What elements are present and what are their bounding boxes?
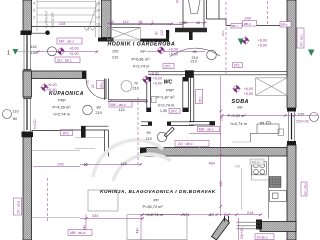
- dim soba horizontal: [222, 114, 318, 116]
- windows thin lines: [23, 33, 294, 229]
- dash axis top right: [267, 1, 269, 25]
- kitchen counter front edge: [268, 156, 270, 219]
- wall bathroom top hatched: [23, 71, 86, 79]
- wall bathroom east double: [105, 79, 109, 100]
- svg-text:WC: WC: [164, 80, 173, 86]
- dim stair window: [36, 51, 98, 53]
- window left upper: [24, 33, 31, 71]
- sink basin: [269, 191, 286, 202]
- wall left window2 sill cap: [22, 132, 34, 138]
- wall bath-wc partition: [108, 100, 146, 101]
- stair numbers left: [33, 2, 35, 20]
- wall cap wc left top: [146, 77, 151, 81]
- svg-text:2P.c: 2P.c: [171, 110, 178, 114]
- svg-text:464: 464: [209, 162, 215, 166]
- svg-text:MK : ab.c: MK : ab.c: [59, 40, 74, 44]
- svg-text:+6,00: +6,00: [169, 47, 179, 51]
- svg-text:P=4,29 m²: P=4,29 m²: [53, 104, 72, 109]
- wire soba floor line: [232, 141, 250, 143]
- dash axis kitchen: [47, 178, 49, 222]
- door tag circles: [3, 47, 319, 142]
- wall wc right channel: [183, 77, 189, 112]
- svg-text:440: 440: [136, 228, 140, 234]
- wall hodnik top double: [111, 24, 183, 27]
- level marker top right: [241, 36, 249, 44]
- door entry leaf: [189, 0, 201, 14]
- svg-text:3: 3: [33, 9, 35, 13]
- wall right-top hatched: [287, 0, 296, 108]
- wall top right corridor: [226, 19, 287, 26]
- sink unit dark: [269, 177, 281, 188]
- svg-text:80: 80: [13, 117, 17, 121]
- wall diagonal terrace hatched: [212, 218, 230, 240]
- svg-text:+5,90: +5,90: [169, 52, 179, 56]
- node black caps: [45, 30, 215, 138]
- doors: [86, 0, 220, 155]
- svg-text:2V : ab.c: 2V : ab.c: [300, 34, 304, 47]
- svg-text:50: 50: [224, 213, 228, 217]
- svg-text:210: 210: [96, 111, 102, 115]
- wall left-bottom hatched: [23, 137, 32, 240]
- svg-text:PP: PP: [154, 197, 160, 202]
- svg-text:MK : ab.c: MK : ab.c: [111, 103, 126, 107]
- svg-text:P=9,00 m²: P=9,00 m²: [228, 113, 247, 118]
- svg-text:214: 214: [247, 211, 253, 215]
- svg-text:240: 240: [245, 17, 251, 21]
- level marker kupaonica: [40, 83, 48, 91]
- svg-text:1W: 1W: [235, 165, 241, 169]
- svg-text:16: 16: [96, 2, 100, 6]
- wall cap bath top end: [82, 71, 86, 78]
- svg-text:115: 115: [121, 162, 127, 166]
- dash axis corridor: [137, 97, 139, 165]
- wire shelf line b: [75, 148, 95, 150]
- dim vertical soba-kitchen: [220, 76, 222, 216]
- wall right window cap top: [287, 108, 296, 112]
- wall cap entry stub: [189, 32, 193, 40]
- wall mid cap left: [140, 148, 146, 157]
- svg-text:2P.c: 2P.c: [63, 132, 70, 136]
- watermark arcs: [93, 140, 171, 181]
- svg-text:2P.c: 2P.c: [199, 96, 203, 102]
- soba side table: [278, 129, 284, 136]
- svg-text:10: 10: [138, 20, 142, 24]
- svg-text:90: 90: [147, 131, 151, 135]
- svg-text:+5,90: +5,90: [258, 43, 268, 47]
- svg-text:h=2,74 m: h=2,74 m: [147, 212, 163, 217]
- svg-text:1,39: 1,39: [160, 109, 167, 113]
- stairs: [37, 0, 99, 37]
- svg-text:2: 2: [33, 16, 35, 20]
- dresser soba: [257, 124, 279, 133]
- lamp circle hodnik corridor: [121, 81, 132, 92]
- svg-text:140: 140: [31, 51, 37, 55]
- wire shelf line a: [75, 137, 105, 139]
- svg-text:440: 440: [83, 225, 87, 231]
- dim ticks: [37, 22, 296, 220]
- svg-text:171: 171: [183, 213, 189, 217]
- svg-text:2P.c: 2P.c: [100, 82, 104, 88]
- wall left-top hatched: [23, 0, 32, 33]
- svg-text:MK : ab.c: MK : ab.c: [199, 128, 214, 132]
- dim soba south: [189, 132, 221, 134]
- wall wc south left piece: [141, 122, 152, 126]
- door bathroom leaf: [105, 79, 107, 99]
- svg-text:140: 140: [219, 115, 223, 121]
- level marker hodnik: [157, 46, 165, 54]
- dim texts black: [13, 21, 304, 217]
- svg-text:+6,00: +6,00: [258, 39, 268, 43]
- wall kitchen tee vertical: [105, 130, 109, 157]
- svg-text:100: 100: [112, 50, 118, 54]
- svg-text:100: 100: [298, 113, 304, 117]
- svg-text:70: 70: [86, 80, 90, 84]
- window right soba: [288, 112, 294, 142]
- svg-text:PKP: PKP: [58, 98, 66, 103]
- window terrace door: [237, 222, 261, 229]
- wardrobe hodnik with X: [108, 28, 141, 40]
- svg-text:Pa/VANJ.ST: Pa/VANJ.ST: [45, 10, 49, 28]
- section marker top: [238, 39, 244, 46]
- level marker wc: [142, 75, 150, 83]
- svg-text:242: 242: [58, 162, 64, 166]
- svg-text:210: 210: [191, 60, 197, 64]
- svg-text:h=2,74 m: h=2,74 m: [231, 121, 247, 126]
- svg-text:10: 10: [196, 21, 200, 25]
- window left lower: [24, 97, 31, 132]
- room titles: [49, 42, 249, 195]
- svg-text:14: 14: [96, 16, 100, 20]
- wall cap garderoba bar: [140, 39, 169, 42]
- wall stairwell cap: [98, 38, 114, 42]
- wall stair landing line: [32, 26, 102, 28]
- dim entry door: [179, 22, 207, 24]
- svg-text:h=120: h=120: [33, 119, 37, 129]
- wall cap wc right bottom: [183, 108, 189, 112]
- svg-text:h=2,74 m: h=2,74 m: [54, 111, 70, 116]
- wall cap garderoba stub: [166, 30, 169, 39]
- stair arrowheads: [84, 27, 96, 31]
- svg-text:+6,00: +6,00: [153, 77, 163, 81]
- svg-text:=+6,00: =+6,00: [148, 72, 159, 76]
- svg-text:PKP: PKP: [166, 87, 174, 92]
- svg-text:MB : ab.a: MB : ab.a: [70, 231, 85, 235]
- svg-text:1: 1: [7, 51, 10, 57]
- stair walk line: [88, 4, 97, 31]
- wall cap kitchen tee end: [81, 126, 86, 137]
- svg-text:240+20: 240+20: [240, 227, 244, 239]
- wall cap wc door right: [167, 122, 171, 126]
- dim kitchen left: [80, 217, 143, 219]
- dim hodnik top: [107, 23, 172, 25]
- svg-text:153: 153: [219, 181, 223, 187]
- svg-text:KUHINJA, BLAGOVAONICA I DN.BOR: KUHINJA, BLAGOVAONICA I DN.BORAVAK: [100, 189, 216, 195]
- wall cap wc door left: [148, 122, 152, 126]
- dim dashed lines: [48, 1, 268, 222]
- wire kitchen counter line: [241, 168, 243, 210]
- wall mid horizontal hatched: [146, 148, 287, 157]
- svg-text:90: 90: [176, 0, 180, 3]
- svg-text:210: 210: [146, 137, 152, 141]
- svg-text:+5,90: +5,90: [69, 52, 79, 56]
- svg-text:220+20: 220+20: [296, 119, 309, 123]
- wire kupaonica lower line: [32, 150, 81, 152]
- svg-text:SP.c: SP.c: [281, 23, 288, 27]
- section line left: [16, 51, 36, 53]
- wall entry jambs: [183, 0, 204, 28]
- svg-text:PP: PP: [238, 105, 244, 110]
- wall entry threshold bar: [175, 28, 207, 33]
- svg-text:P=30,72 m²: P=30,72 m²: [143, 204, 164, 209]
- svg-text:SU.a: SU.a: [252, 161, 260, 165]
- svg-text:P=6,81 m²: P=6,81 m²: [132, 56, 151, 61]
- svg-text:20: 20: [91, 84, 95, 88]
- dim kupaonica window: [33, 166, 80, 168]
- node stair dot: [45, 30, 50, 35]
- svg-text:+6,00: +6,00: [69, 47, 79, 51]
- wire thin walls black: [32, 0, 288, 157]
- svg-text:2V : ab.c: 2V : ab.c: [303, 183, 307, 195]
- wall soba west double: [191, 77, 194, 122]
- svg-text:h=2,74 m: h=2,74 m: [158, 103, 174, 108]
- svg-text:2P.c: 2P.c: [234, 64, 240, 68]
- wall cap soba block: [185, 70, 194, 77]
- svg-text:ZU : ab.c: ZU : ab.c: [57, 59, 72, 63]
- wall cap wc right top: [183, 77, 189, 81]
- wall soba south partial: [189, 122, 215, 126]
- dim vertical terrace: [238, 218, 240, 240]
- svg-text:210: 210: [160, 30, 164, 36]
- svg-text:10: 10: [84, 163, 88, 167]
- svg-text:PP: PP: [141, 49, 147, 54]
- wall left-mid hatched: [23, 71, 32, 97]
- green marks: [13, 39, 315, 57]
- dim bath corridor: [108, 101, 148, 103]
- wall stairwell hatched: [102, 0, 112, 38]
- svg-text:2V : ab.d: 2V : ab.d: [17, 201, 21, 214]
- dim kitchen main: [140, 214, 229, 216]
- stair side lines: [37, 0, 99, 37]
- wall terrace stub: [225, 216, 229, 222]
- stove burners: [252, 162, 266, 175]
- wall kupaonica south line: [32, 130, 61, 132]
- table small: [88, 190, 118, 211]
- svg-text:10: 10: [210, 213, 214, 217]
- furniture: [88, 28, 287, 240]
- section marker right: [308, 50, 315, 57]
- dim terrace: [229, 214, 263, 216]
- svg-text:15: 15: [96, 9, 100, 13]
- wall top stair right band: [207, 0, 227, 19]
- svg-text:434: 434: [92, 214, 98, 218]
- stair treads: [37, 2, 95, 23]
- svg-text:80: 80: [97, 106, 101, 110]
- dash axis hodnik: [225, 2, 227, 74]
- svg-text:90: 90: [193, 50, 197, 54]
- wall bottom-right hatched: [260, 222, 296, 232]
- svg-text:115: 115: [31, 45, 37, 49]
- wall wc left channel: [147, 77, 151, 112]
- stair numbers right: [96, 2, 100, 27]
- wall right window cap bottom: [287, 141, 296, 145]
- svg-text:HODNIK I GARDEROBA: HODNIK I GARDEROBA: [108, 42, 176, 48]
- svg-text:13: 13: [96, 23, 100, 27]
- svg-text:112: 112: [123, 20, 129, 24]
- svg-text:MK.c: MK.c: [232, 24, 239, 28]
- wire kitchen floor line: [32, 217, 81, 219]
- wire helper thin gray lines: [32, 138, 251, 218]
- svg-text:228: 228: [59, 22, 65, 26]
- svg-text:20: 20: [110, 20, 114, 24]
- dim vertical kitchen left: [86, 214, 141, 240]
- dim kitchen passage: [80, 163, 141, 165]
- svg-text:110: 110: [13, 109, 19, 113]
- wall wc-soba top double: [148, 71, 287, 75]
- svg-text:210: 210: [112, 56, 118, 60]
- wall cap left top: [21, 31, 32, 36]
- svg-text:115: 115: [119, 108, 125, 112]
- wall bottom-right cap: [256, 220, 262, 230]
- svg-text:h=2,74 m: h=2,74 m: [133, 64, 149, 69]
- svg-text:2V.ab.c: 2V.ab.c: [257, 235, 268, 239]
- svg-text:PROSTOR: PROSTOR: [51, 12, 55, 28]
- wardrobe soba with X: [256, 78, 288, 96]
- level marker stair: [57, 47, 65, 55]
- svg-text:ZU : ab.c: ZU : ab.c: [178, 142, 193, 146]
- svg-text:+5,90: +5,90: [244, 92, 254, 96]
- svg-text:+6,00: +6,00: [244, 87, 254, 91]
- svg-text:70: 70: [134, 81, 138, 85]
- svg-text:90: 90: [183, 21, 187, 25]
- door entry swing arc: [170, 48, 220, 56]
- section marker left: [13, 49, 19, 55]
- door soba leaf open: [164, 127, 174, 137]
- svg-text:210: 210: [133, 86, 139, 90]
- dim hodnik level line: [147, 51, 205, 53]
- svg-text:P=1,87 m²: P=1,87 m²: [157, 95, 176, 100]
- svg-text:ab.c: ab.c: [244, 22, 251, 26]
- svg-text:90: 90: [155, 31, 159, 35]
- svg-text:2P.c: 2P.c: [221, 30, 225, 36]
- wall wc south right piece: [167, 122, 194, 126]
- svg-text:4: 4: [33, 2, 35, 6]
- wall cap wc left bottom: [146, 108, 151, 112]
- wall kitchen tee horizontal: [60, 126, 108, 130]
- level symbols purple: [40, 36, 249, 93]
- level marker soba: [232, 85, 240, 93]
- room sub texts: [53, 49, 247, 217]
- wall cap soba south end: [210, 122, 216, 126]
- door soba arc: [200, 147, 212, 155]
- svg-text:2P.c: 2P.c: [165, 65, 172, 69]
- wc fixture: [152, 97, 157, 103]
- wall right-bottom hatched: [287, 145, 296, 240]
- door bathroom arc: [86, 79, 106, 99]
- svg-text:+6,00: +6,00: [47, 83, 57, 87]
- table dining: [127, 215, 187, 240]
- svg-text:+5,90: +5,90: [153, 82, 163, 86]
- svg-text:+5,90: +5,90: [47, 88, 57, 92]
- svg-text:7: 7: [151, 20, 153, 24]
- wall landing bottom: [32, 32, 51, 34]
